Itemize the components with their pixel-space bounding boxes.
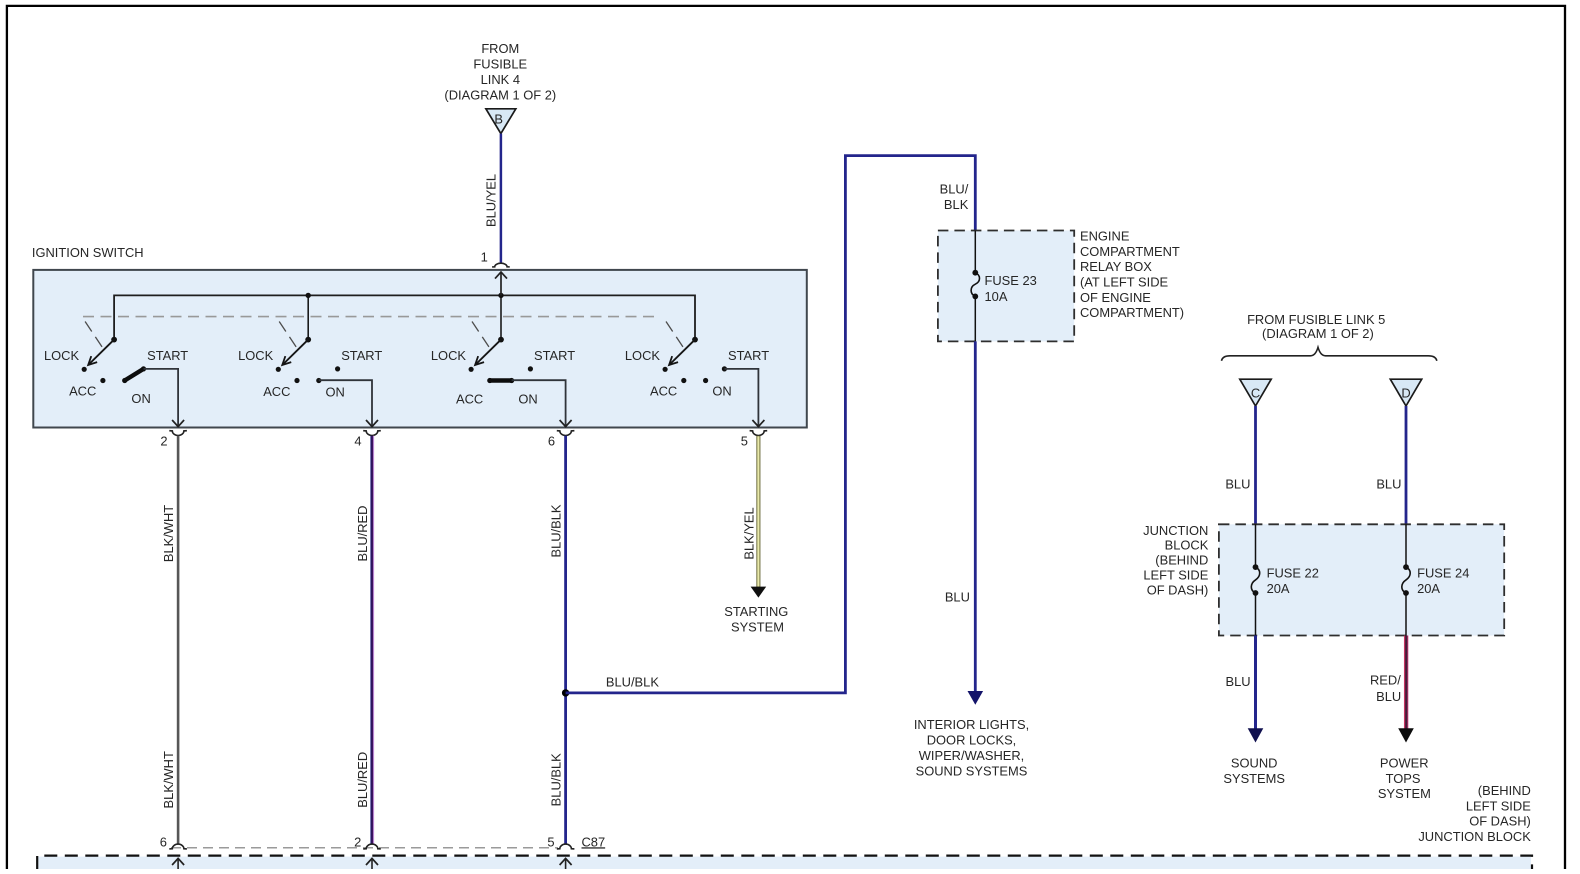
svg-text:BLK/YEL: BLK/YEL	[741, 507, 756, 559]
svg-text:5: 5	[741, 434, 748, 449]
svg-text:6: 6	[160, 834, 167, 849]
svg-text:WIPER/WASHER,: WIPER/WASHER,	[919, 748, 1025, 763]
svg-text:BLU/BLK: BLU/BLK	[549, 504, 564, 557]
svg-text:FROM: FROM	[481, 41, 519, 56]
svg-text:BLU: BLU	[945, 590, 970, 605]
svg-text:LOCK: LOCK	[431, 348, 467, 363]
svg-text:2: 2	[354, 834, 361, 849]
svg-text:BLU/RED: BLU/RED	[355, 752, 370, 808]
svg-text:OF DASH): OF DASH)	[1469, 814, 1531, 829]
svg-text:START: START	[728, 348, 769, 363]
svg-text:COMPARTMENT: COMPARTMENT	[1080, 244, 1180, 259]
svg-text:D: D	[1401, 385, 1410, 400]
svg-text:1: 1	[481, 249, 488, 264]
svg-text:(DIAGRAM 1 OF 2): (DIAGRAM 1 OF 2)	[1262, 326, 1374, 341]
svg-text:C: C	[1251, 385, 1260, 400]
svg-text:RELAY BOX: RELAY BOX	[1080, 259, 1152, 274]
svg-text:4: 4	[354, 434, 361, 449]
svg-text:INTERIOR LIGHTS,: INTERIOR LIGHTS,	[914, 717, 1029, 732]
svg-text:ENGINE: ENGINE	[1080, 229, 1130, 244]
svg-text:SOUND: SOUND	[1231, 756, 1278, 771]
svg-text:BLK/WHT: BLK/WHT	[161, 505, 176, 562]
svg-text:ON: ON	[712, 384, 731, 399]
svg-text:FUSE 24: FUSE 24	[1417, 565, 1469, 580]
svg-text:LOCK: LOCK	[44, 348, 80, 363]
svg-text:FUSE 23: FUSE 23	[985, 273, 1037, 288]
svg-text:ACC: ACC	[456, 392, 483, 407]
svg-text:BLK/WHT: BLK/WHT	[161, 751, 176, 808]
svg-text:BLU/YEL: BLU/YEL	[484, 174, 499, 227]
svg-text:ACC: ACC	[650, 384, 677, 399]
svg-text:OF ENGINE: OF ENGINE	[1080, 290, 1151, 305]
svg-text:FUSIBLE: FUSIBLE	[473, 57, 527, 72]
svg-text:SYSTEM: SYSTEM	[731, 619, 784, 634]
svg-text:(BEHIND: (BEHIND	[1155, 553, 1208, 568]
svg-text:BLU: BLU	[1226, 674, 1251, 689]
svg-text:FUSE 22: FUSE 22	[1267, 565, 1319, 580]
svg-text:(AT LEFT SIDE: (AT LEFT SIDE	[1080, 275, 1169, 290]
svg-text:BLU: BLU	[1376, 476, 1401, 491]
svg-text:ACC: ACC	[263, 384, 290, 399]
svg-text:BLU/BLK: BLU/BLK	[549, 753, 564, 806]
svg-text:6: 6	[548, 434, 555, 449]
svg-text:IGNITION SWITCH: IGNITION SWITCH	[32, 245, 144, 260]
svg-text:SOUND SYSTEMS: SOUND SYSTEMS	[916, 763, 1028, 778]
svg-text:BLU/RED: BLU/RED	[355, 506, 370, 562]
svg-text:LOCK: LOCK	[238, 348, 274, 363]
svg-text:BLU: BLU	[1376, 689, 1401, 704]
svg-text:LOCK: LOCK	[625, 348, 661, 363]
svg-text:10A: 10A	[985, 289, 1008, 304]
svg-text:START: START	[147, 348, 188, 363]
svg-text:LEFT SIDE: LEFT SIDE	[1143, 568, 1208, 583]
svg-text:20A: 20A	[1417, 581, 1440, 596]
svg-text:JUNCTION BLOCK: JUNCTION BLOCK	[1418, 829, 1531, 844]
svg-text:LINK 4: LINK 4	[481, 72, 520, 87]
svg-text:JUNCTION: JUNCTION	[1143, 523, 1208, 538]
svg-text:RED/: RED/	[1370, 673, 1401, 688]
svg-text:START: START	[341, 348, 382, 363]
svg-text:STARTING: STARTING	[724, 604, 788, 619]
svg-text:COMPARTMENT): COMPARTMENT)	[1080, 305, 1184, 320]
svg-text:5: 5	[547, 834, 554, 849]
svg-text:BLOCK: BLOCK	[1165, 538, 1209, 553]
svg-text:SYSTEM: SYSTEM	[1378, 786, 1431, 801]
svg-text:(BEHIND: (BEHIND	[1478, 783, 1531, 798]
svg-text:B: B	[494, 111, 503, 126]
svg-text:BLU/BLK: BLU/BLK	[606, 675, 659, 690]
svg-text:BLU: BLU	[1225, 476, 1250, 491]
svg-text:ON: ON	[326, 385, 345, 400]
svg-text:OF DASH): OF DASH)	[1147, 582, 1209, 597]
svg-text:2: 2	[160, 434, 167, 449]
svg-text:C87: C87	[582, 834, 606, 849]
svg-text:SYSTEMS: SYSTEMS	[1223, 771, 1285, 786]
svg-text:FROM FUSIBLE LINK 5: FROM FUSIBLE LINK 5	[1247, 312, 1385, 327]
svg-text:BLU/: BLU/	[940, 182, 969, 197]
svg-text:20A: 20A	[1267, 581, 1290, 596]
svg-text:START: START	[534, 348, 575, 363]
svg-text:ON: ON	[131, 391, 150, 406]
svg-text:DOOR LOCKS,: DOOR LOCKS,	[927, 733, 1017, 748]
svg-text:BLK: BLK	[944, 197, 969, 212]
svg-text:ACC: ACC	[69, 384, 96, 399]
svg-text:LEFT SIDE: LEFT SIDE	[1466, 798, 1531, 813]
svg-text:TOPS: TOPS	[1386, 771, 1421, 786]
svg-text:ON: ON	[518, 392, 537, 407]
svg-text:(DIAGRAM 1 OF 2): (DIAGRAM 1 OF 2)	[444, 88, 556, 103]
svg-text:POWER: POWER	[1380, 756, 1429, 771]
